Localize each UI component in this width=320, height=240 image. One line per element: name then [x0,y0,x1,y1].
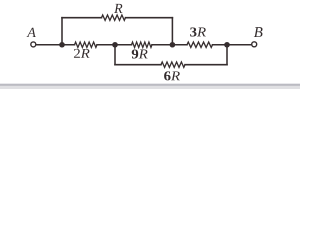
label 2R (value) [74,49,90,58]
wire: bottom rail left segment [115,64,161,66]
label B (terminal B) [254,27,263,37]
node junction dot 1 [59,42,65,48]
wire: node 4 to terminal B [213,44,252,46]
wire: bottom branch left vertical [114,45,116,65]
wire: bottom branch right vertical [226,45,228,65]
terminal A open circle [31,42,36,47]
wire: top rail left segment [62,17,102,19]
resistor 9R [132,42,153,47]
light band below rule [0,86,300,89]
node junction dot 4 [224,42,230,48]
wire: terminal A to node 1 [36,44,74,46]
resistor 3R [187,42,213,47]
label 6R (value) [164,71,180,80]
wire: top rail right segment [126,17,173,19]
wire: top branch left vertical [61,18,63,45]
node junction dot 2 [112,42,118,48]
resistor R (top branch) [102,15,126,20]
resistor 2R [75,42,98,47]
terminal B open circle [252,42,257,47]
wire: bottom rail right segment [185,64,227,66]
label A (terminal A) [27,28,36,37]
wire: top branch right vertical [171,18,173,45]
node junction dot 3 [170,42,176,48]
wire: node 2 segment [97,44,132,46]
resistor 6R (bottom branch) [161,62,185,67]
label 9R (value) [132,49,148,58]
wire: node 3 segment [152,44,187,46]
label R (top resistor value) [114,4,122,13]
page rule line at bottom [0,83,300,85]
label 3R (value) [190,27,206,36]
